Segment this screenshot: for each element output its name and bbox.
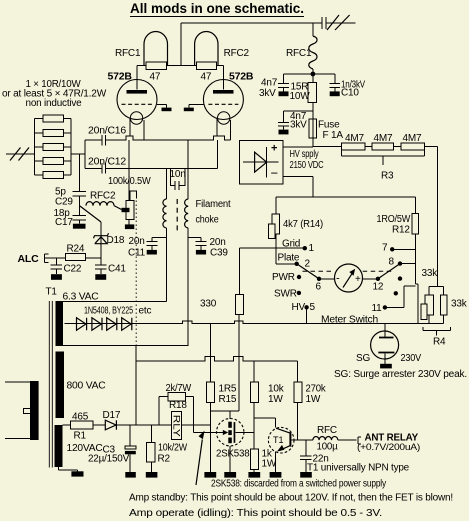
wire dot11 up to rail bbox=[385, 286, 416, 307]
svg-text:7: 7 bbox=[382, 243, 388, 254]
wire node row y74 bbox=[284, 74, 335, 84]
svg-text:1W: 1W bbox=[262, 459, 277, 470]
wire HV dot5 drop bbox=[306, 307, 308, 323]
svg-text:1: 1 bbox=[309, 243, 315, 254]
capacitor C11 20n bbox=[146, 237, 166, 250]
wire rails to bias resistors bbox=[210, 324, 297, 382]
diode D1 1N5408 bbox=[77, 318, 87, 330]
choke core dashed bbox=[176, 199, 178, 231]
svg-text:RFC1: RFC1 bbox=[286, 48, 312, 59]
svg-text:12: 12 bbox=[373, 282, 384, 293]
svg-text:Fuse: Fuse bbox=[318, 120, 340, 131]
wire grid node bbox=[240, 234, 305, 294]
svg-text:8: 8 bbox=[389, 257, 395, 268]
transformer core bbox=[49, 301, 52, 468]
svg-text:572B: 572B bbox=[108, 71, 133, 83]
capacitor C22 bbox=[51, 258, 62, 274]
svg-text:HV: HV bbox=[292, 302, 306, 313]
svg-text:non inductive: non inductive bbox=[26, 98, 83, 109]
svg-text:All mods in one schematic.: All mods in one schematic. bbox=[130, 1, 304, 16]
svg-text:3kV: 3kV bbox=[259, 88, 276, 99]
wire filament supply rails bbox=[63, 302, 189, 346]
svg-text:6.3 VAC: 6.3 VAC bbox=[63, 292, 99, 303]
wire cathode bus y140 bbox=[85, 136, 231, 140]
wire top output bbox=[181, 22, 356, 24]
svg-text:4n7: 4n7 bbox=[261, 78, 278, 89]
svg-text:10n: 10n bbox=[170, 169, 186, 180]
capacitor C3 22u/150V bbox=[129, 425, 131, 472]
svg-text:465: 465 bbox=[72, 412, 89, 423]
resistor 4M7 c bbox=[401, 143, 424, 150]
bridge rectifier HV supply box bbox=[240, 140, 284, 184]
antenna break slashes bbox=[327, 15, 350, 30]
node SWR bbox=[297, 291, 301, 295]
svg-text:R3: R3 bbox=[381, 171, 394, 182]
svg-text:RLY: RLY bbox=[172, 415, 182, 437]
node 10 unlabeled bbox=[394, 291, 398, 295]
svg-text:SG: SG bbox=[356, 353, 370, 364]
svg-text:F 1A: F 1A bbox=[323, 130, 344, 141]
svg-text:270k: 270k bbox=[306, 384, 327, 395]
wire FET drain stub bbox=[229, 411, 231, 419]
svg-text:Amp standby: This point should: Amp standby: This point should be about … bbox=[129, 493, 453, 504]
svg-text:10k: 10k bbox=[268, 384, 285, 395]
node 12 pole bbox=[376, 277, 380, 281]
surge arrester SG bbox=[384, 324, 386, 337]
bracket R4 bbox=[423, 327, 451, 336]
resistor 33k right bbox=[441, 295, 448, 315]
svg-text:R12: R12 bbox=[392, 225, 410, 236]
svg-text:C39: C39 bbox=[210, 248, 228, 259]
switch linkage dashed right bbox=[363, 270, 394, 272]
tube U1 572B left bbox=[117, 80, 157, 120]
svg-text:800 VAC: 800 VAC bbox=[67, 381, 106, 392]
resistor 4M7 a bbox=[341, 143, 365, 150]
node 7 bbox=[390, 247, 394, 251]
svg-text:T1 universally NPN type: T1 universally NPN type bbox=[307, 463, 410, 474]
resistor 10k 1W bbox=[250, 382, 258, 403]
relay coil RLY bbox=[171, 412, 181, 440]
svg-text:−: − bbox=[271, 166, 279, 181]
wire filament legs U1 bbox=[130, 118, 144, 141]
svg-text:C22: C22 bbox=[64, 264, 82, 275]
wire T1 emitter to ground bbox=[275, 452, 277, 473]
wire FET source to ground bbox=[229, 446, 231, 472]
resistor R15 1R5 bbox=[206, 382, 214, 403]
node 1 Grid bbox=[303, 246, 307, 250]
svg-text:11: 11 bbox=[372, 303, 383, 314]
svg-text:etc: etc bbox=[139, 306, 152, 317]
svg-text:R1: R1 bbox=[74, 431, 87, 442]
resistor 4M7 b bbox=[372, 143, 394, 150]
svg-text:10k/2W: 10k/2W bbox=[158, 443, 188, 454]
svg-text:Amp operate (idling): This poi: Amp operate (idling): This point should … bbox=[129, 508, 382, 519]
svg-text:SWR: SWR bbox=[274, 289, 297, 300]
wire center vertical to top bbox=[180, 23, 182, 66]
wire bridge minus routing bbox=[276, 177, 416, 214]
resistor R18 2k/7W bbox=[168, 393, 185, 401]
wire R12 rail down bbox=[415, 234, 417, 324]
ground grid tab U1 bbox=[157, 104, 167, 107]
wire filament legs U2 bbox=[217, 118, 231, 141]
input wire with break slashes bbox=[6, 153, 35, 155]
svg-text:Grid: Grid bbox=[282, 239, 300, 250]
svg-text:572B: 572B bbox=[229, 71, 254, 83]
svg-text:1W: 1W bbox=[268, 394, 283, 405]
node PWR bbox=[297, 275, 301, 279]
svg-text:C17: C17 bbox=[55, 217, 73, 228]
svg-text:33k: 33k bbox=[422, 268, 439, 279]
svg-text:33k: 33k bbox=[451, 299, 468, 310]
svg-text:R2: R2 bbox=[158, 454, 171, 465]
svg-text:100µ: 100µ bbox=[317, 442, 338, 453]
connector ANT RELAY bbox=[358, 437, 361, 444]
svg-text:D17: D17 bbox=[103, 410, 121, 421]
capacitor C12 bbox=[102, 163, 106, 173]
diode D17 bbox=[105, 420, 116, 430]
svg-text:2: 2 bbox=[305, 259, 311, 270]
svg-text:120VAC: 120VAC bbox=[67, 443, 103, 454]
svg-text:T1: T1 bbox=[273, 435, 284, 445]
dotted boundary line bbox=[135, 201, 137, 347]
wire bias bus2 bbox=[136, 357, 297, 362]
svg-text:3kV: 3kV bbox=[290, 120, 307, 131]
diode D18 zener bbox=[79, 206, 101, 222]
resistor 330 bbox=[236, 294, 244, 314]
resistor 47 left bbox=[146, 62, 167, 70]
diode D3 1N5408 bbox=[107, 318, 117, 330]
node 6 pole bbox=[317, 277, 321, 281]
wire winding foot to ground bbox=[59, 467, 78, 471]
wire T1 base to RFC bbox=[291, 439, 356, 441]
wire FET right lead to 1k rail bbox=[235, 431, 254, 433]
node 11 bbox=[383, 305, 387, 309]
inductor RFC2 dome bbox=[195, 32, 218, 66]
tube U2 572B right bbox=[203, 80, 243, 120]
svg-text:SG: Surge arrester 230V peak.: SG: Surge arrester 230V peak. bbox=[334, 369, 467, 380]
connector ALC bbox=[45, 254, 49, 263]
capacitor C10 1n/3kV bbox=[329, 84, 340, 92]
svg-text:C29: C29 bbox=[55, 197, 73, 208]
capacitor antenna coupling bbox=[322, 17, 326, 29]
wire 10k rail down bbox=[254, 403, 275, 449]
capacitor 4n7/3kV upper bbox=[278, 84, 289, 92]
svg-text:6: 6 bbox=[316, 282, 322, 293]
resistor R24 bbox=[45, 257, 101, 259]
svg-text:R24: R24 bbox=[67, 244, 85, 255]
inductor filament choke left winding bbox=[166, 168, 168, 301]
svg-text:2SK538: 2SK538 bbox=[216, 449, 250, 460]
wire 120V bus bbox=[116, 424, 210, 426]
resistor 15R/10W bbox=[308, 83, 316, 103]
resistor 270k 1W bbox=[294, 382, 302, 403]
capacitor 4n7/3kV lower bbox=[278, 122, 289, 129]
wire lower bus y168.4 bbox=[85, 167, 218, 169]
svg-text:ALC: ALC bbox=[18, 253, 40, 265]
transistor Q1 2SK538 FET bbox=[217, 419, 244, 446]
resistor stack 5x47R bbox=[35, 119, 72, 176]
capacitor C17 18p bbox=[73, 216, 87, 224]
svg-text:4M7: 4M7 bbox=[403, 133, 422, 144]
diode D2 1N5408 bbox=[92, 318, 102, 330]
svg-text:-: - bbox=[336, 273, 340, 285]
resistor 33k left bbox=[425, 295, 434, 315]
resistor R1 465 bbox=[63, 424, 106, 426]
transformer primary bbox=[30, 381, 39, 440]
wire HV line with 4M7 chain bbox=[313, 146, 438, 286]
svg-text:20n: 20n bbox=[129, 236, 145, 247]
svg-text:5: 5 bbox=[310, 302, 316, 313]
svg-text:Filament: Filament bbox=[196, 199, 231, 210]
wire meter leads bbox=[319, 278, 378, 280]
winding 6.3VAC bbox=[56, 301, 64, 346]
svg-text:1W: 1W bbox=[306, 394, 321, 405]
winding 120VAC tap lower bbox=[55, 425, 63, 467]
svg-text:2150 VDC: 2150 VDC bbox=[290, 160, 324, 171]
svg-text:PWR: PWR bbox=[272, 272, 295, 283]
inductor filament choke right winding bbox=[187, 168, 189, 345]
svg-text:4k7 (R14): 4k7 (R14) bbox=[283, 219, 323, 230]
svg-text:10W: 10W bbox=[290, 91, 311, 102]
svg-text:100k/0.5W: 100k/0.5W bbox=[108, 176, 151, 187]
capacitor C41 bbox=[95, 265, 106, 274]
svg-text:1N5408, BY225: 1N5408, BY225 bbox=[84, 306, 133, 317]
capacitor C29 5p bbox=[73, 154, 87, 216]
svg-text:R18: R18 bbox=[169, 400, 187, 411]
inductor RFC 100u bbox=[313, 436, 338, 440]
svg-text:330: 330 bbox=[200, 299, 217, 310]
diode D4 1N5408 bbox=[122, 318, 132, 330]
annotation arrow to gate bbox=[196, 440, 202, 486]
node 8 bbox=[398, 261, 402, 265]
wire 33k top feed bbox=[429, 287, 444, 296]
bridge diode bbox=[255, 152, 267, 172]
svg-text:(+0.7V/200uA): (+0.7V/200uA) bbox=[357, 442, 420, 453]
node 5 HV bbox=[304, 305, 308, 309]
transistor T1 bbox=[268, 427, 294, 453]
inductor RFC1 (right anode choke) bbox=[312, 23, 314, 74]
wire R15 rail to ground bbox=[209, 403, 211, 472]
svg-text:20n/C16: 20n/C16 bbox=[88, 126, 127, 137]
svg-text:C11: C11 bbox=[128, 248, 146, 259]
wire R18 leads bbox=[159, 397, 217, 433]
svg-text:C41: C41 bbox=[108, 264, 126, 275]
wire plate bus top bbox=[137, 66, 223, 90]
svg-text:Meter Switch: Meter Switch bbox=[321, 315, 378, 326]
resistor 4k7 R14 bbox=[272, 214, 279, 234]
node 9 unlabeled bbox=[398, 276, 402, 280]
switch arm left bbox=[297, 264, 319, 279]
svg-text:RFC1: RFC1 bbox=[115, 48, 141, 59]
wire 330 rail down to FET drain jog bbox=[210, 315, 239, 412]
svg-text:4M7: 4M7 bbox=[345, 133, 364, 144]
svg-text:4M7: 4M7 bbox=[374, 133, 393, 144]
svg-text:HV spply: HV spply bbox=[290, 149, 319, 160]
svg-text:1RO/5W: 1RO/5W bbox=[377, 214, 411, 225]
resistor 47 right bbox=[196, 62, 216, 70]
wire 1k to ground bbox=[253, 469, 255, 472]
node 2 Plate bbox=[295, 262, 299, 266]
resistor R12 1RO/5W bbox=[412, 214, 418, 234]
svg-text:47: 47 bbox=[150, 72, 161, 83]
svg-text:22µ/150V: 22µ/150V bbox=[88, 454, 130, 465]
wire 33k bottoms bbox=[429, 315, 444, 323]
bracket R3 bbox=[341, 150, 424, 165]
svg-text:+: + bbox=[271, 143, 277, 155]
wire meter switch bus bbox=[65, 321, 444, 324]
svg-text:T1: T1 bbox=[46, 287, 58, 298]
node dot HV feed bbox=[311, 72, 316, 77]
svg-text:RFC2: RFC2 bbox=[224, 48, 250, 59]
capacitor C39 20n bbox=[188, 237, 206, 250]
svg-text:D18: D18 bbox=[107, 235, 125, 246]
svg-text:2k/7W: 2k/7W bbox=[166, 383, 192, 394]
winding 800VAC bbox=[56, 352, 65, 419]
resistor 1k 1W bbox=[251, 449, 259, 469]
wire dot7 dot8 to rail bbox=[392, 249, 415, 263]
svg-text:20n: 20n bbox=[210, 237, 226, 248]
wire bus connectors bbox=[71, 140, 218, 168]
wire 270k rail to base node bbox=[297, 403, 299, 440]
svg-text:1R5: 1R5 bbox=[219, 384, 237, 395]
svg-text:C10: C10 bbox=[341, 88, 359, 99]
fuse F 1A bbox=[309, 119, 317, 138]
svg-text:230V: 230V bbox=[401, 353, 422, 364]
svg-text:RFC: RFC bbox=[317, 425, 337, 436]
ground grid tab U2 bbox=[189, 104, 204, 107]
meter bbox=[335, 264, 363, 292]
wire x137 vertical 6.3 return bbox=[135, 346, 137, 425]
wire 15R to fuse junction bbox=[284, 103, 313, 123]
svg-text:choke: choke bbox=[196, 215, 220, 226]
capacitor 10n with stubs bbox=[171, 168, 185, 190]
svg-text:+: + bbox=[355, 274, 361, 285]
resistor 100k/0.5W grid leak bbox=[129, 168, 136, 224]
wire bridge plus to fuse bbox=[283, 146, 313, 148]
switch linkage dashed left bbox=[303, 270, 335, 272]
capacitor C16 bbox=[102, 135, 106, 145]
inductor RFC2 parasitic choke bbox=[86, 202, 122, 210]
svg-text:R15: R15 bbox=[219, 394, 237, 405]
svg-text:R4: R4 bbox=[433, 337, 446, 348]
svg-text:RFC2: RFC2 bbox=[90, 191, 116, 202]
svg-text:2SK538: discarded from a switc: 2SK538: discarded from a switched power … bbox=[211, 479, 386, 490]
capacitor 22n bbox=[300, 440, 311, 472]
inductor RFC1 dome bbox=[144, 32, 168, 66]
svg-text:20n/C12: 20n/C12 bbox=[88, 157, 127, 168]
resistor R2 10k/2W bbox=[151, 425, 153, 472]
switch arm right bbox=[378, 264, 400, 279]
svg-text:47: 47 bbox=[201, 72, 212, 83]
